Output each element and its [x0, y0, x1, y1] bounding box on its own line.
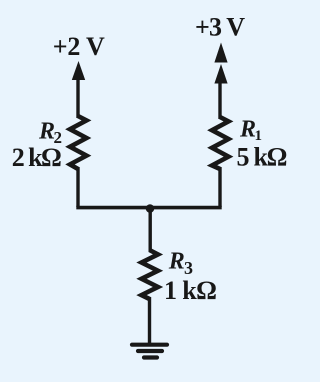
resistor R2 — [70, 116, 87, 169]
svg-text:R: R — [168, 249, 185, 275]
resistor R3 — [142, 250, 159, 299]
svg-text:5 kΩ: 5 kΩ — [237, 143, 288, 172]
node junction dot — [146, 204, 155, 213]
wire left vertical bottom (R2 to node) — [76, 167, 79, 207]
wire bottom vertical (R3 to ground) — [148, 297, 151, 343]
svg-text:3: 3 — [184, 258, 193, 278]
svg-text:2 kΩ: 2 kΩ — [12, 143, 62, 172]
wire left vertical top (arrow shaft to R2) — [76, 76, 79, 118]
wire right vertical top (arrow shaft to R1) — [218, 79, 221, 119]
svg-text:R: R — [239, 117, 256, 143]
wire horizontal (left branch to right branch) — [76, 206, 221, 210]
svg-text:R: R — [38, 119, 55, 145]
ground symbol — [132, 345, 167, 358]
svg-text:+3 V: +3 V — [195, 13, 245, 42]
resistor R1 — [212, 117, 229, 169]
wire middle vertical (node to R3) — [148, 208, 151, 252]
supply arrow for +3 V (double head) — [214, 43, 227, 63]
wire right vertical bottom (R1 to node) — [218, 167, 221, 207]
svg-text:1 kΩ: 1 kΩ — [164, 276, 217, 305]
svg-text:+2 V: +2 V — [53, 32, 105, 61]
supply arrow for +2 V — [72, 61, 85, 80]
